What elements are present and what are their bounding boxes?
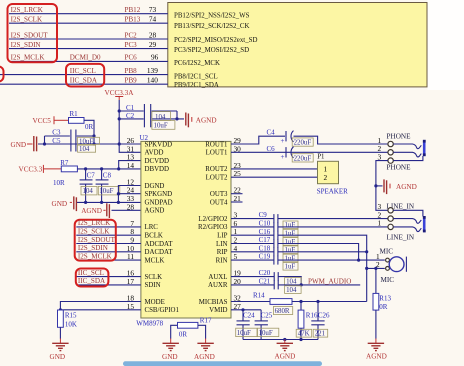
svg-text:1uF: 1uF xyxy=(285,222,296,229)
svg-text:PB12: PB12 xyxy=(125,6,141,14)
svg-text:PC2: PC2 xyxy=(125,31,138,39)
svg-text:AGND: AGND xyxy=(396,183,417,191)
capacitor C7 xyxy=(85,169,87,180)
svg-text:R7: R7 xyxy=(60,159,69,167)
wire DGND/SPKGND trunk xyxy=(118,186,140,203)
svg-text:DCMI_D0: DCMI_D0 xyxy=(70,54,101,62)
svg-text:0R: 0R xyxy=(379,303,388,311)
svg-text:10K: 10K xyxy=(65,320,77,328)
node PWM merge xyxy=(300,283,303,286)
node R7/C8 xyxy=(100,167,103,170)
svg-text:LIN: LIN xyxy=(216,241,228,248)
capacitor C9 xyxy=(273,214,275,223)
wire C3/C5 left trunk to GND xyxy=(38,136,45,144)
capacitor C24 xyxy=(242,310,244,321)
svg-text:AGND: AGND xyxy=(194,353,215,361)
svg-text:ROUT1: ROUT1 xyxy=(205,141,228,148)
microphone symbol xyxy=(389,257,404,272)
svg-text:PB9: PB9 xyxy=(125,77,138,85)
capacitor C6 (220uF polarized) xyxy=(285,147,287,157)
svg-text:10uF: 10uF xyxy=(79,138,93,145)
value box 1uF (C16) xyxy=(283,238,298,246)
node VCC3.3A / C1 xyxy=(118,109,121,112)
wire net I2S_SDOUT to ADCDAT xyxy=(76,243,141,245)
svg-text:PC3: PC3 xyxy=(125,41,138,49)
svg-text:MIC: MIC xyxy=(381,276,395,284)
value box 1uF (C10) xyxy=(283,229,298,237)
node C26 top xyxy=(316,300,319,303)
node R7/DCVDD trunk xyxy=(117,167,120,170)
svg-text:PWM_AUDIO: PWM_AUDIO xyxy=(308,277,351,285)
svg-text:AVDD: AVDD xyxy=(145,150,164,157)
svg-text:IIC_SDA: IIC_SDA xyxy=(78,277,106,285)
connector P1 SPEAKER xyxy=(318,161,339,183)
svg-text:C4: C4 xyxy=(267,129,276,137)
value box 1uF (C9) xyxy=(283,221,298,229)
svg-text:I2S_MCLK: I2S_MCLK xyxy=(78,252,113,260)
svg-text:3: 3 xyxy=(378,152,382,161)
pin names U2 right column xyxy=(198,141,228,314)
svg-text:P1: P1 xyxy=(317,154,325,161)
wire R15 to GND xyxy=(59,327,61,338)
svg-text:C24: C24 xyxy=(243,311,255,319)
svg-text:L2/GPIO2: L2/GPIO2 xyxy=(198,216,228,223)
node trunkB/MIC2 xyxy=(365,267,368,270)
svg-text:C7: C7 xyxy=(87,171,96,179)
svg-text:PHONE: PHONE xyxy=(387,164,412,172)
wire L2/GPIO2 to C9 to LINE_IN pin2 xyxy=(231,218,274,220)
wire R7 output to DBVDD xyxy=(77,168,140,170)
wire PHONE pin3 to AGND trunk xyxy=(376,161,388,211)
wire LOUT2 to P1 xyxy=(231,176,318,178)
svg-text:BCLK: BCLK xyxy=(145,233,163,240)
node R13 top xyxy=(374,267,377,270)
svg-text:I2S_LRCK: I2S_LRCK xyxy=(78,219,111,227)
svg-text:PB12/SPI2_NSS/I2S2_WS: PB12/SPI2_NSS/I2S2_WS xyxy=(174,13,250,20)
resistor R17 xyxy=(171,325,178,338)
svg-text:I2S_SDOUT: I2S_SDOUT xyxy=(78,236,116,244)
wire GND rail to GNDPAD xyxy=(77,201,141,203)
capacitor C10 xyxy=(273,222,275,231)
svg-text:1uF: 1uF xyxy=(285,264,296,271)
svg-text:I2S_SDIN: I2S_SDIN xyxy=(78,244,108,252)
value box 104 (C1) xyxy=(152,112,171,121)
line_in pad pin2 xyxy=(388,216,393,221)
wire AUXR to C21 to PWM_AUDIO xyxy=(231,284,274,286)
svg-text:PC3/SPI2_MOSI/I2S2_SD: PC3/SPI2_MOSI/I2S2_SD xyxy=(174,47,249,54)
wire net I2S_SCLK to BCLK xyxy=(76,234,141,236)
power ground AGND (bottom center) xyxy=(284,340,286,344)
wire LOUT1 to phone xyxy=(231,151,388,153)
svg-text:1uF: 1uF xyxy=(285,255,296,262)
value box 104 (C5) xyxy=(78,145,96,152)
svg-text:R2/GPIO3: R2/GPIO3 xyxy=(198,224,228,231)
scrollbar blue bar at bottom xyxy=(123,361,322,366)
value box 10uF (C25) xyxy=(258,328,279,336)
svg-text:SPEAKER: SPEAKER xyxy=(317,187,348,195)
value box 104 (C20) xyxy=(285,278,302,286)
svg-text:10uF: 10uF xyxy=(99,188,113,195)
svg-text:PB8/I2C1_SCL: PB8/I2C1_SCL xyxy=(174,73,218,80)
svg-text:SPKVDD: SPKVDD xyxy=(145,141,173,148)
svg-text:I2S_SDOUT: I2S_SDOUT xyxy=(11,31,49,39)
svg-text:MCLK: MCLK xyxy=(145,257,165,264)
svg-text:1uF: 1uF xyxy=(285,239,296,246)
svg-text:14: 14 xyxy=(127,161,135,170)
red highlight box around I2S labels (left of U2) xyxy=(75,220,116,261)
wire ROUT1 to phone (with jog) xyxy=(231,136,285,144)
wire MICBIAS to R14 xyxy=(231,301,270,303)
wire net IIC_SCL to SCLK xyxy=(76,276,141,278)
node VCC3.3A / SPKVDD row xyxy=(118,142,121,145)
svg-text:MICBIAS: MICBIAS xyxy=(199,299,228,306)
white corner top-right xyxy=(428,0,464,90)
svg-text:+: + xyxy=(281,137,285,145)
pin names U2 left column xyxy=(145,141,180,314)
wire RIP to C18 to trunk B xyxy=(231,251,274,253)
node trunkB/RIP xyxy=(365,250,368,253)
svg-text:PHONE: PHONE xyxy=(387,132,412,140)
svg-text:IIC_SCL: IIC_SCL xyxy=(78,269,104,277)
resistor R14 xyxy=(270,299,292,305)
wire RIN to C19 to MIC pin1 xyxy=(231,259,274,261)
value box 104 (C21) xyxy=(285,286,302,294)
svg-text:CSB/GPIO1: CSB/GPIO1 xyxy=(145,307,180,314)
power ground GND (left of C3/C5) xyxy=(27,143,33,145)
svg-text:10uF: 10uF xyxy=(237,330,251,337)
power ground AGND (phone/line) xyxy=(376,185,383,187)
line_in pad pin3 xyxy=(388,208,393,213)
svg-text:ADCDAT: ADCDAT xyxy=(145,241,174,248)
capacitor C8 xyxy=(101,169,103,180)
svg-text:R16: R16 xyxy=(306,311,318,319)
wire net I2S_LRCK (PB12) xyxy=(9,13,168,15)
svg-text:680R: 680R xyxy=(275,308,290,315)
svg-text:PB13/SPI2_SCK/I2S2_CK: PB13/SPI2_SCK/I2S2_CK xyxy=(174,23,249,30)
wire net I2S_SDIN to DACDAT xyxy=(76,251,141,253)
node R1/C3 xyxy=(92,134,95,137)
red highlight box fragment at left edge xyxy=(0,67,4,82)
node R15 top xyxy=(59,308,62,311)
svg-text:VMID: VMID xyxy=(209,307,227,314)
svg-text:C17: C17 xyxy=(259,236,271,244)
op chip U2 WM8978 body xyxy=(141,141,231,318)
svg-text:I2S_MCLK: I2S_MCLK xyxy=(11,54,46,62)
power ground GND (under R17 left) xyxy=(170,339,172,344)
svg-text:2: 2 xyxy=(324,173,328,182)
svg-text:2: 2 xyxy=(376,260,380,269)
svg-text:GND: GND xyxy=(52,200,68,208)
svg-text:DACDAT: DACDAT xyxy=(145,249,174,256)
phone jack symbol xyxy=(393,144,421,149)
capacitor C16 xyxy=(273,231,275,240)
wire net I2S_SDIN (PC3) xyxy=(9,48,168,50)
svg-text:C26: C26 xyxy=(318,311,330,319)
value box 10uF (C3) xyxy=(78,137,100,144)
phone pad pin1 xyxy=(388,141,393,146)
wire AGND row xyxy=(112,209,141,211)
svg-text:SDIN: SDIN xyxy=(145,282,161,289)
power ground AGND (under R13) xyxy=(375,339,377,344)
resistor R13 xyxy=(375,268,377,293)
resistor R1 xyxy=(69,118,85,124)
wire VCC3.3A vertical trunk xyxy=(119,100,141,152)
value box 1uF (C18) xyxy=(283,254,298,262)
red highlight box around I2S net labels xyxy=(8,4,58,62)
svg-text:MODE: MODE xyxy=(145,299,165,306)
svg-text:0R: 0R xyxy=(179,330,188,338)
wire OUT4 stub xyxy=(231,201,243,203)
line_in jack symbol xyxy=(393,210,423,216)
mic pad pin1 xyxy=(386,258,390,262)
svg-text:139: 139 xyxy=(147,66,158,75)
svg-text:AUXL: AUXL xyxy=(208,274,227,281)
svg-text:PC6: PC6 xyxy=(125,54,138,62)
power ground AGND (under R17 right) xyxy=(205,339,207,344)
svg-text:AGND: AGND xyxy=(145,208,165,215)
svg-text:VCC3.3: VCC3.3 xyxy=(19,165,43,173)
svg-text:PB8: PB8 xyxy=(125,67,138,75)
wire net I2S_MCLK / DCMI_D0 (PC6) xyxy=(9,60,168,62)
svg-text:LIP: LIP xyxy=(217,233,228,240)
svg-text:C6: C6 xyxy=(267,145,276,153)
node R16 top xyxy=(299,300,302,303)
svg-text:OUT4: OUT4 xyxy=(210,199,228,206)
svg-text:AGND: AGND xyxy=(366,353,387,361)
svg-text:C18: C18 xyxy=(259,244,271,252)
wire SPKVDD row xyxy=(38,143,141,145)
svg-text:10R: 10R xyxy=(53,179,65,187)
node trunkA/RIN xyxy=(357,259,360,262)
capacitor C3 xyxy=(45,135,70,137)
pin numbers U2 left xyxy=(127,136,135,311)
wire R1 to node xyxy=(84,120,94,144)
value box 680R (R14) xyxy=(273,307,292,315)
svg-text:DCVDD: DCVDD xyxy=(145,158,170,165)
svg-text:104: 104 xyxy=(79,146,90,153)
wire net IIC_SDA (PB9) xyxy=(0,83,168,85)
value box 221 (C26) xyxy=(313,329,328,337)
wire AUXL to C20 xyxy=(231,276,274,278)
svg-text:96: 96 xyxy=(151,53,159,62)
svg-text:104: 104 xyxy=(286,287,297,294)
svg-text:C5: C5 xyxy=(52,137,61,145)
svg-text:PB9/I2C1_SDA: PB9/I2C1_SDA xyxy=(174,82,219,89)
wire trunk B corner to MIC pin2 xyxy=(367,267,385,269)
capacitor C26 xyxy=(317,302,319,321)
capacitor C18 xyxy=(273,247,275,256)
wire VMID to C25/C24 xyxy=(231,309,261,311)
svg-text:R14: R14 xyxy=(253,291,265,299)
svg-text:47K: 47K xyxy=(298,331,310,338)
resistor R16 xyxy=(300,302,302,311)
svg-text:C1: C1 xyxy=(126,104,135,112)
svg-text:OUT3: OUT3 xyxy=(210,191,228,198)
wire net I2S_SCLK (PB13) xyxy=(9,22,168,24)
value box 220uF (C6) xyxy=(292,154,313,162)
svg-text:DBVDD: DBVDD xyxy=(145,166,170,173)
node R1/C5 row xyxy=(92,142,95,145)
svg-text:C3: C3 xyxy=(52,129,61,137)
svg-text:29: 29 xyxy=(149,40,157,49)
svg-text:LINE_IN: LINE_IN xyxy=(387,234,415,242)
value box 104 (C7) xyxy=(81,186,97,195)
svg-text:PB13: PB13 xyxy=(125,16,141,24)
phone pad pin3 xyxy=(388,158,393,163)
power ground GND (left of rail) xyxy=(70,201,72,203)
svg-text:AUXR: AUXR xyxy=(208,282,228,289)
power ground GND (under R15) xyxy=(59,339,61,344)
svg-text:GND: GND xyxy=(11,141,27,149)
svg-text:R15: R15 xyxy=(65,312,77,320)
value box 47K (R16) xyxy=(296,329,312,337)
wire MODE to R15 trunk xyxy=(60,302,140,311)
svg-text:ROUT2: ROUT2 xyxy=(205,166,228,173)
value box 1uF (C17) xyxy=(283,246,298,254)
svg-text:10uF: 10uF xyxy=(154,123,168,130)
svg-text:VCC3.3A: VCC3.3A xyxy=(105,89,135,97)
wire R13 to AGND xyxy=(375,310,377,339)
svg-text:SPKGND: SPKGND xyxy=(145,191,173,198)
wire ROUT2 to P1 xyxy=(231,168,318,170)
svg-text:RIP: RIP xyxy=(217,249,228,256)
svg-text:140: 140 xyxy=(147,76,158,85)
svg-text:220uF: 220uF xyxy=(294,156,312,163)
wire net IIC_SCL (PB8) xyxy=(0,74,168,76)
svg-text:C10: C10 xyxy=(259,220,271,228)
capacitor C17 xyxy=(273,239,275,248)
svg-text:1uF: 1uF xyxy=(285,247,296,254)
svg-text:28: 28 xyxy=(149,30,157,39)
svg-text:73: 73 xyxy=(149,5,157,14)
wire net I2S_MCLK to MCLK xyxy=(76,259,141,261)
wire LIP to C16 then trunk B xyxy=(231,234,274,236)
svg-text:74: 74 xyxy=(149,15,157,24)
capacitor C20 xyxy=(273,272,275,281)
mic pad pin2 xyxy=(386,267,390,271)
node AGND branch xyxy=(374,184,377,187)
wire DCVDD trunk xyxy=(119,161,141,169)
svg-text:VCC5: VCC5 xyxy=(33,117,52,125)
svg-text:I2S_SDIN: I2S_SDIN xyxy=(11,41,41,49)
svg-text:AGND: AGND xyxy=(275,352,296,360)
svg-text:R13: R13 xyxy=(379,294,391,302)
red highlight box around IIC labels (left of U2) xyxy=(76,269,109,287)
value box 220uF (C4) xyxy=(292,138,313,146)
svg-text:LOUT2: LOUT2 xyxy=(206,175,228,182)
node VCC3.3A / C2 xyxy=(118,117,121,120)
svg-text:+: + xyxy=(281,153,285,161)
wire C1/C2 to AGND xyxy=(177,111,184,119)
svg-text:AGND: AGND xyxy=(196,116,217,124)
value box 10uF (C24) xyxy=(236,328,257,336)
value box 10uF (C8) xyxy=(98,186,120,195)
wire LIN to C17 then trunk A xyxy=(231,243,274,245)
svg-text:MIC: MIC xyxy=(380,248,394,256)
wire OUT3 stub xyxy=(231,193,243,195)
wire AGND rail (bottom right) xyxy=(243,339,318,341)
value box 1uF (C19) xyxy=(283,263,298,271)
svg-text:PC2/SPI2_MISO/I2S2ext_SD: PC2/SPI2_MISO/I2S2ext_SD xyxy=(174,37,257,44)
svg-text:I2S_SCLK: I2S_SCLK xyxy=(11,16,43,24)
svg-text:C19: C19 xyxy=(259,253,271,261)
node R7/C7 xyxy=(84,167,87,170)
svg-text:R1: R1 xyxy=(70,110,79,118)
svg-text:0R: 0R xyxy=(85,123,94,131)
svg-text:220uF: 220uF xyxy=(294,140,312,147)
svg-text:10uF: 10uF xyxy=(259,330,273,337)
MCU block U1 (partial, top) xyxy=(168,3,427,87)
line_in pad pin1 xyxy=(388,224,393,229)
wire SPKGND row xyxy=(118,193,140,195)
power ground AGND (right of C1/C2) xyxy=(186,113,189,128)
svg-text:C21: C21 xyxy=(259,277,271,285)
svg-text:I2S_LRCK: I2S_LRCK xyxy=(11,6,44,14)
red highlight box around IIC net labels (top) xyxy=(66,64,104,87)
pin numbers U2 right xyxy=(234,136,242,311)
wire net I2S_LRCK to LRC xyxy=(76,226,141,228)
svg-text:RIN: RIN xyxy=(216,257,228,264)
svg-text:221: 221 xyxy=(315,331,326,338)
svg-text:IIC_SDA: IIC_SDA xyxy=(70,77,98,85)
resistor R15 xyxy=(58,310,64,327)
svg-text:LOUT1: LOUT1 xyxy=(206,150,228,157)
power ground AGND (left, AGND pin) xyxy=(103,209,105,211)
svg-text:104: 104 xyxy=(83,188,94,195)
svg-text:C9: C9 xyxy=(259,211,268,219)
svg-text:AGND: AGND xyxy=(81,207,102,215)
svg-text:C8: C8 xyxy=(103,171,112,179)
wire net IIC_SDA to SDIN xyxy=(76,284,141,286)
resistor R7 xyxy=(61,166,77,172)
value box 10uF (C2) xyxy=(152,121,175,130)
capacitor C4 (220uF polarized) xyxy=(285,131,287,141)
wire net I2S_SDOUT (PC2) xyxy=(9,38,168,40)
svg-text:C16: C16 xyxy=(259,228,271,236)
wire CSB to R15 trunk xyxy=(60,309,140,311)
svg-text:28: 28 xyxy=(127,202,135,211)
svg-text:C2: C2 xyxy=(126,112,135,120)
capacitor C25 xyxy=(260,310,262,321)
svg-text:DGND: DGND xyxy=(145,183,165,190)
wire R14 to trunk B xyxy=(292,301,367,303)
capacitor C1 xyxy=(119,110,144,112)
wire R2/GPIO3 to C10 to LINE_IN pin1 xyxy=(231,226,274,228)
capacitor C2 xyxy=(119,118,144,120)
phone pad pin2 xyxy=(388,150,393,155)
svg-text:IIC_SCL: IIC_SCL xyxy=(70,67,96,75)
svg-text:PC6/I2S2_MCK: PC6/I2S2_MCK xyxy=(174,60,220,67)
svg-text:GND: GND xyxy=(162,353,178,361)
svg-text:1: 1 xyxy=(378,219,382,228)
capacitor C21 xyxy=(273,280,275,289)
capacitor C19 xyxy=(273,256,275,265)
svg-text:WM8978: WM8978 xyxy=(136,320,163,328)
svg-text:GND: GND xyxy=(50,353,66,361)
svg-text:GNDPAD: GNDPAD xyxy=(145,199,173,206)
svg-text:C25: C25 xyxy=(261,311,273,319)
svg-text:1uF: 1uF xyxy=(285,231,296,238)
svg-text:C20: C20 xyxy=(259,269,271,277)
svg-text:104: 104 xyxy=(155,114,166,121)
svg-text:SCLK: SCLK xyxy=(145,274,163,281)
svg-text:I2S_SCLK: I2S_SCLK xyxy=(78,228,110,236)
svg-text:R17: R17 xyxy=(200,317,212,325)
svg-text:LRC: LRC xyxy=(145,224,159,231)
